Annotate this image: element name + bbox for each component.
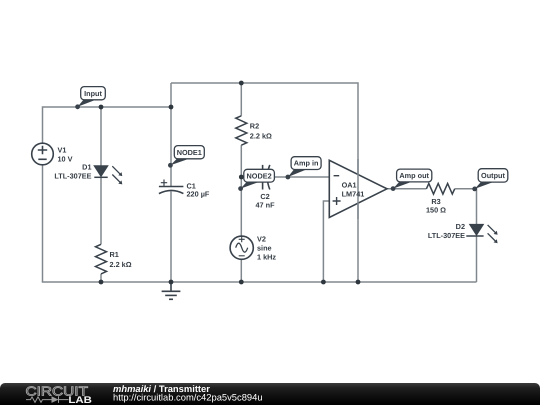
LED D2 bbox=[466, 225, 497, 244]
value label D1 LTL-307EE bbox=[54, 163, 91, 181]
junction C1-ground/ground rail bbox=[169, 280, 174, 285]
junction V2/ground rail bbox=[239, 280, 244, 285]
node Amp out bbox=[391, 169, 432, 191]
capacitor C1 bbox=[159, 180, 184, 194]
wire op-amp output to R3 bbox=[387, 188, 426, 190]
wire D1 cathode to R1 bbox=[100, 178, 102, 245]
value label R3 150 ohm bbox=[426, 197, 446, 215]
junction D1/input wire bbox=[99, 105, 104, 110]
resistor R1 bbox=[96, 244, 107, 274]
value label OA1 LM741 bbox=[342, 180, 365, 198]
junction op-amp +input/ground rail bbox=[321, 280, 326, 285]
value label C2 47 nF bbox=[255, 192, 275, 210]
value label V1 10 V bbox=[58, 146, 73, 164]
wire R2 bottom to V2 top (NODE2) bbox=[240, 145, 242, 236]
wire V1 bottom to ground rail bbox=[42, 165, 44, 283]
wire input net (top horizontal) bbox=[43, 107, 172, 144]
wire C1 bottom to ground junction bbox=[170, 191, 172, 282]
junction top rail/R2 bbox=[239, 81, 244, 86]
capacitor C2 bbox=[263, 165, 270, 190]
node NODE1 bbox=[168, 146, 204, 168]
wire ground rail (bottom horizontal) bbox=[42, 281, 477, 283]
ground bbox=[162, 282, 181, 299]
junction input/NODE1 wire bbox=[169, 105, 174, 110]
node Input bbox=[75, 87, 105, 110]
node Output bbox=[472, 169, 508, 192]
wire top horizontal rail bbox=[171, 83, 358, 282]
wire R1 bottom to ground rail bbox=[100, 274, 102, 282]
value label D2 LTL-307EE bbox=[428, 222, 465, 240]
op-amp input polarity signs bbox=[333, 176, 341, 205]
wire top rail to R2 bbox=[240, 83, 242, 116]
resistor R3 bbox=[426, 184, 454, 195]
junction top-rail-return/ground rail bbox=[356, 280, 361, 285]
LED D1 bbox=[94, 166, 122, 185]
wire op-amp non-inverting input bbox=[323, 201, 329, 282]
value label V2 sine 1 kHz bbox=[257, 234, 276, 261]
value label C1 220 uF bbox=[187, 181, 210, 198]
voltage source V2 bbox=[230, 236, 253, 259]
wire top rail down segment crossing op-amp bbox=[357, 159, 359, 219]
value label R1 2.2 k bbox=[110, 250, 132, 269]
CircuitLab logo mini circuit (wire, resistor, diode) bbox=[26, 396, 69, 403]
junction NODE2 bbox=[239, 175, 244, 180]
svg-text:http://circuitlab.com/c42pa5v5: http://circuitlab.com/c42pa5v5c894u bbox=[113, 392, 263, 403]
op-amp OA1 bbox=[329, 160, 387, 217]
wire V2 bottom to ground rail bbox=[240, 259, 242, 282]
node Amp in bbox=[286, 157, 322, 180]
node NODE2 bbox=[238, 169, 274, 191]
wire NODE1 vertical (top corner to C1) bbox=[170, 83, 172, 187]
junction R1/ground rail bbox=[99, 280, 104, 285]
wire NODE2 to C2 left plate bbox=[241, 176, 262, 178]
wire input to D1 anode bbox=[100, 107, 102, 166]
footer bar bbox=[0, 383, 540, 405]
value label R2 2.2 k bbox=[250, 122, 272, 141]
svg-text:LAB: LAB bbox=[68, 395, 92, 405]
wire C2 right plate to op-amp inverting input bbox=[268, 176, 330, 178]
voltage source V1 bbox=[32, 143, 54, 165]
resistor R2 bbox=[236, 116, 247, 145]
wire D2 cathode to ground rail bbox=[476, 236, 478, 282]
wire R3 to output corner and down to D2 bbox=[455, 189, 477, 225]
